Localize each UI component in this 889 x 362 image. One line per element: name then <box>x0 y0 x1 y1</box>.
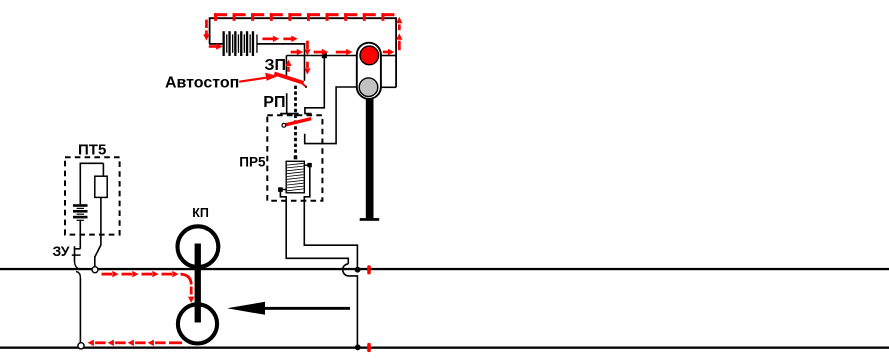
current dashes rail 2 (leftward) <box>88 340 183 346</box>
wire battery top lead <box>79 163 81 205</box>
insulated joint rail 2 (red) <box>367 343 371 352</box>
wire top loop (coil to signal head) <box>210 18 397 87</box>
wire battery bottom lead <box>79 221 81 249</box>
current arrow down ZP upper <box>304 41 310 56</box>
wire gray lamp right lead <box>381 86 396 88</box>
current dash after red lamp <box>383 49 395 55</box>
train direction arrow <box>227 302 350 315</box>
node RP upper contact T-bar <box>304 113 311 115</box>
mechanical link (dotted) ZP-RP-coil <box>294 86 297 157</box>
current path curve into axle <box>181 274 192 284</box>
node resistor-rail1 terminal (open) <box>92 267 98 273</box>
signal head housing <box>357 43 381 99</box>
node RP armature bar <box>280 113 298 115</box>
axle KP <box>195 244 201 323</box>
contact RP pivot <box>282 123 286 127</box>
insulated joint rail 1 (red) <box>367 265 371 274</box>
svg-text:КП: КП <box>192 206 209 220</box>
wire PR5 right terminal to rail 1 <box>304 167 357 268</box>
contact ZP blade (red) <box>274 73 306 87</box>
wheel lower KP <box>178 304 217 343</box>
rail 1 (upper) <box>0 268 889 270</box>
wire RP armature stem <box>286 93 288 113</box>
wire ZP right terminal (from coil) <box>304 43 306 81</box>
terminal PR5 coil lower-left <box>278 187 286 192</box>
signal mast <box>366 99 374 219</box>
wire coil left lead <box>209 43 223 45</box>
current dash under coil left lead <box>209 43 223 49</box>
current dashes rail 1 (rightward) <box>102 271 179 277</box>
node rail1-signal junction <box>355 267 361 273</box>
lamp gray (off) <box>359 78 378 97</box>
wire ZP left terminal <box>285 56 287 76</box>
svg-text:ЗП: ЗП <box>265 57 287 74</box>
rail 2 (lower) <box>0 347 889 349</box>
wire ZU jog <box>75 249 81 262</box>
wire PT5 top bus <box>80 162 103 164</box>
terminal link to coil top <box>294 156 298 160</box>
wire resistor top lead <box>102 163 104 176</box>
terminal PR5 coil upper-right <box>304 163 312 167</box>
current dashes coil to ZP (rightward) <box>262 36 297 42</box>
svg-text:Автостоп: Автостоп <box>165 74 239 91</box>
node ZP blade tip dot <box>305 86 307 88</box>
wire PR5 left terminal to rail 2 <box>280 192 348 264</box>
autostop pointer arrow (red) <box>239 73 277 82</box>
ground ZU tick upper <box>74 246 76 249</box>
ground ZU bar <box>72 254 81 256</box>
relay coil PR5 winding <box>286 161 304 193</box>
inductor track coil <box>223 31 258 56</box>
wheel upper KP <box>178 226 219 267</box>
current arrow up ZP left terminal <box>285 60 291 72</box>
signal mast base <box>360 218 380 221</box>
node rail2-signal junction <box>355 344 361 350</box>
wire red lamp right lead <box>381 55 396 57</box>
node junction square on lamp bus <box>322 53 327 58</box>
current dashes to red lamp (rightward) <box>291 49 353 55</box>
wire junction to RP upper contact <box>305 56 324 114</box>
wire resistor to rail 1 <box>95 197 101 266</box>
resistor PT5 <box>95 176 107 197</box>
wire coil right lead <box>257 43 305 45</box>
relay box PR5 (dashed) <box>267 115 322 201</box>
current arrow down into coil <box>203 20 209 41</box>
wire ZU hop over rail 1 <box>75 261 81 277</box>
wire ZU to rail 2 <box>79 278 81 343</box>
battery PT5 <box>73 204 88 221</box>
svg-text:ПР5: ПР5 <box>239 155 266 170</box>
svg-text:РП: РП <box>263 94 285 111</box>
current arrow down to ZP blade <box>304 62 310 75</box>
current arrows up right side <box>396 17 402 50</box>
current path top loop (red dashes, leftward) <box>214 13 394 21</box>
current arrow down axle <box>188 287 194 304</box>
wire hop over rail 1 (no connection) <box>343 264 358 346</box>
svg-text:ПТ5: ПТ5 <box>78 141 106 158</box>
wire bus to signal lamp (y56) <box>286 55 357 57</box>
contact RP blade (red) <box>285 119 311 125</box>
wire gray lamp to RP lower contact <box>305 87 358 144</box>
node ZU-rail2 terminal (open) <box>78 343 84 349</box>
lamp red (lit) <box>360 46 379 65</box>
feed box PT5 (dashed) <box>65 157 120 234</box>
svg-text:ЗУ: ЗУ <box>53 243 70 259</box>
